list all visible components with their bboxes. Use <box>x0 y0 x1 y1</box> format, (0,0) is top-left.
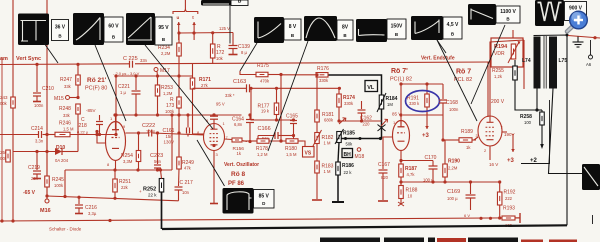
svg-text:1,2k: 1,2k <box>494 74 503 79</box>
svg-text:2,2M: 2,2M <box>161 51 171 56</box>
svg-text:100k: 100k <box>165 109 175 114</box>
svg-text:00k: 00k <box>0 101 8 106</box>
test point M17 <box>154 68 158 72</box>
pointer line oscillator scope <box>197 140 225 186</box>
wire R184 to node <box>381 109 383 139</box>
pointer line scope1 <box>44 43 58 63</box>
svg-text:330k: 330k <box>344 101 354 106</box>
highlight ellipse around R191 <box>406 91 440 112</box>
svg-text:R176: R176 <box>317 66 329 72</box>
svg-text:33k: 33k <box>63 113 71 118</box>
svg-text:C167: C167 <box>378 162 390 168</box>
plug VS <box>298 141 305 147</box>
svg-text:C210: C210 <box>42 86 54 92</box>
pointer line scope3 to tube B <box>145 45 213 129</box>
varistor R194 <box>491 38 523 67</box>
svg-text:100k: 100k <box>54 183 64 188</box>
svg-text:8V: 8V <box>342 24 349 30</box>
svg-text:10k: 10k <box>216 56 224 61</box>
wire bottom right rail corner <box>592 215 594 224</box>
scope photo 8V flyback <box>254 17 284 43</box>
pointer line endstufe <box>437 40 446 53</box>
svg-text:1,5 M: 1,5 M <box>286 152 297 157</box>
wire riser x172 <box>171 115 173 170</box>
resistor R234 <box>178 33 180 43</box>
resistor R245 <box>45 176 50 187</box>
node dot bottom rail x110 <box>108 219 111 222</box>
svg-text:C219: C219 <box>28 165 40 171</box>
wire tube A grid to left <box>97 132 106 144</box>
test point M16 <box>46 196 48 199</box>
scope label 900V <box>565 2 587 21</box>
transformer core <box>543 36 545 89</box>
resistor R176 <box>281 74 316 76</box>
wire black from R176 to R184 <box>329 75 382 95</box>
svg-text:M17: M17 <box>160 68 170 74</box>
wire left vertical line x13 <box>12 0 14 221</box>
wire tube C grid stub <box>383 137 393 169</box>
capacitor C210 <box>36 64 38 92</box>
resistor R156 <box>225 138 233 141</box>
svg-text:1,2 M: 1,2 M <box>257 152 268 157</box>
bottom scan bar <box>320 238 518 242</box>
capacitor C139 <box>232 33 234 46</box>
scope label 36V <box>52 20 69 41</box>
resistor R171 <box>192 64 194 78</box>
svg-text:R193: R193 <box>503 206 515 212</box>
svg-text:900 V: 900 V <box>569 5 583 11</box>
transformer winding L74 <box>534 37 541 89</box>
svg-text:PF 86: PF 86 <box>228 181 245 187</box>
wire L74 bottom lead <box>536 89 538 111</box>
svg-text:BH: BH <box>344 152 352 158</box>
resistor R175 <box>240 71 256 75</box>
resistor R187 <box>399 164 404 177</box>
resistor R253 <box>157 76 159 85</box>
svg-text:0A 204: 0A 204 <box>55 158 69 163</box>
magnifier zoom icon <box>567 11 587 31</box>
svg-text:36 V: 36 V <box>55 24 66 30</box>
u-t waveform inset with brace <box>184 0 186 10</box>
resistor R189 <box>442 115 444 140</box>
scope label 85V D <box>254 190 275 209</box>
svg-text:1,2M: 1,2M <box>163 91 173 96</box>
scope photo top cut <box>201 0 231 6</box>
resistor R174 <box>338 88 340 94</box>
svg-text:680k: 680k <box>324 118 334 123</box>
svg-text:Schalter - Diode: Schalter - Diode <box>49 227 82 232</box>
capacitor C167 <box>379 169 388 171</box>
svg-text:243: 243 <box>0 95 8 100</box>
svg-text:R190: R190 <box>448 159 460 165</box>
resistor R172 <box>212 33 214 44</box>
resistor R246 <box>55 132 70 137</box>
svg-text:Rö 7': Rö 7' <box>391 68 408 75</box>
scope photo 60V <box>73 13 104 45</box>
svg-text:85 V: 85 V <box>259 193 270 199</box>
svg-text:100: 100 <box>524 120 532 125</box>
wire x47 link <box>46 135 48 177</box>
wire far-left edge line <box>1 57 3 221</box>
pointer line scope 8V to R175 <box>240 43 257 71</box>
scope photo 4,5V <box>411 16 443 40</box>
wire tube B plate stub <box>212 113 215 116</box>
wire tube D plate to transformer <box>490 40 524 116</box>
wire tube C cathode <box>400 151 402 165</box>
potentiometer R184 <box>379 95 384 109</box>
wire node line y88 <box>193 87 247 89</box>
potentiometer R182 <box>316 122 318 133</box>
capacitor C168 <box>442 84 444 99</box>
svg-text:C163: C163 <box>233 79 246 85</box>
svg-text:R189: R189 <box>461 129 473 135</box>
svg-text:220: 220 <box>363 122 371 127</box>
svg-text:1 µ: 1 µ <box>120 90 126 95</box>
resistor R181 <box>316 75 318 110</box>
svg-text:R192: R192 <box>504 190 516 196</box>
pointer line scope 4,5V to tube D <box>437 40 477 121</box>
scope label top cut <box>231 0 248 6</box>
wire tube B cathode stub <box>213 151 215 204</box>
scope photo 900V <box>535 0 564 26</box>
svg-text:6 V: 6 V <box>464 213 470 218</box>
svg-text:PC(L) 82: PC(L) 82 <box>390 77 412 83</box>
scope label 1100V <box>496 6 520 23</box>
svg-text:100n: 100n <box>34 103 44 108</box>
svg-text:Rö 21': Rö 21' <box>87 77 107 84</box>
svg-text:47k: 47k <box>184 166 192 171</box>
wire riser x427 to +3 <box>426 112 428 129</box>
svg-text:M18: M18 <box>355 154 365 160</box>
svg-text:Rö 8: Rö 8 <box>231 171 245 178</box>
svg-text:Vert Sync: Vert Sync <box>16 56 41 62</box>
wire node line y182 right <box>401 181 500 183</box>
pointer line scope sine to C166 <box>268 41 308 151</box>
svg-text:33k: 33k <box>64 84 72 89</box>
svg-text:A6: A6 <box>586 62 592 67</box>
svg-text:+: + <box>139 189 142 194</box>
transformer winding L75 <box>549 37 557 89</box>
svg-text:R186: R186 <box>342 163 354 169</box>
resistor R192 <box>499 182 501 192</box>
svg-text:100n: 100n <box>146 129 156 134</box>
resistor R177 <box>276 88 278 103</box>
wire node line y134 left <box>0 134 38 136</box>
wire tube B grid stub left <box>193 133 204 135</box>
wire main top bus +125V rail <box>0 62 490 65</box>
svg-text:u: u <box>177 15 180 20</box>
svg-text:85 V: 85 V <box>392 112 401 117</box>
svg-text:1100 V: 1100 V <box>500 9 516 15</box>
wire node line y120 <box>251 88 294 120</box>
scope label 8V a <box>284 19 301 40</box>
svg-text:C168: C168 <box>446 100 458 106</box>
svg-text:L74: L74 <box>522 58 531 64</box>
svg-text:L75: L75 <box>559 58 568 64</box>
wire transformer top line <box>534 35 568 225</box>
svg-text:-65 V: -65 V <box>23 190 36 196</box>
svg-text:200 V: 200 V <box>491 99 505 105</box>
tube Ro21 triode <box>106 122 126 161</box>
resistor R251 <box>114 170 116 179</box>
scope photo 95V <box>126 13 155 45</box>
svg-text:95 V: 95 V <box>216 102 225 107</box>
scope photo 8V sine <box>304 16 337 41</box>
svg-text:8 V: 8 V <box>289 24 297 30</box>
wire L75 bottom lead <box>549 89 583 174</box>
svg-text:33k *: 33k * <box>225 93 235 98</box>
svg-text:C 217: C 217 <box>180 180 194 186</box>
wire R186 to terminal <box>337 175 339 201</box>
plug BH <box>342 149 353 158</box>
ground symbol top right <box>573 37 584 48</box>
svg-text:1,5 M: 1,5 M <box>63 127 74 132</box>
wire grid line tube A to tube B y133 <box>126 132 149 134</box>
tube Ro7prime triode <box>393 121 410 151</box>
wire black ground bus <box>162 225 567 229</box>
wire bus to 200V node <box>487 62 489 117</box>
svg-text:C166: C166 <box>258 126 271 132</box>
wiper arrow red R182 tap <box>339 118 346 124</box>
resistor R183 <box>316 144 318 162</box>
svg-text:M15: M15 <box>54 96 64 102</box>
capacitor C216 <box>78 197 80 204</box>
capacitor C162 <box>361 101 363 109</box>
svg-text:60 V: 60 V <box>108 24 119 30</box>
resistor R248 <box>76 104 81 114</box>
svg-text:R248: R248 <box>59 106 71 112</box>
svg-text:330k: 330k <box>319 78 329 83</box>
resistor R191 <box>426 84 428 94</box>
svg-text:2,2M: 2,2M <box>448 166 458 171</box>
svg-text:125 V: 125 V <box>219 26 230 31</box>
svg-text:R247: R247 <box>60 77 72 83</box>
svg-text:100n: 100n <box>449 107 459 112</box>
scope label 4,5V <box>443 17 462 39</box>
svg-text:C169: C169 <box>447 189 460 195</box>
svg-text:Rö 7: Rö 7 <box>456 69 471 76</box>
wire +3 arrow right <box>512 134 514 152</box>
wire tube D grid stub <box>474 137 478 140</box>
svg-text:VL: VL <box>367 85 375 91</box>
wire top right red line <box>568 36 600 39</box>
scope label 150V <box>387 19 406 39</box>
svg-text:VS: VS <box>305 151 312 157</box>
scope photo bottom right <box>582 164 600 190</box>
svg-text:C165: C165 <box>286 114 298 120</box>
wire left vertical line x47 <box>46 0 48 196</box>
svg-text:222: 222 <box>505 196 513 201</box>
wire 125V line y33 <box>179 32 233 35</box>
scope label 60V <box>104 17 123 42</box>
resistor R188 <box>400 182 402 186</box>
frame bottom right box <box>521 100 550 164</box>
svg-text:B: B <box>238 0 242 4</box>
svg-text:10: 10 <box>408 194 413 199</box>
svg-text:218: 218 <box>79 123 88 129</box>
svg-text:820: 820 <box>381 175 389 180</box>
svg-text:3,3M: 3,3M <box>123 159 133 164</box>
tube Ro8 pentode <box>204 124 225 151</box>
wire lower node line y170 <box>65 169 172 171</box>
wire plate loop tube C <box>401 83 443 85</box>
wire R252 to ground bus <box>161 192 163 229</box>
svg-text:6,8n: 6,8n <box>234 122 243 127</box>
pointer line scope2 to tube A <box>95 45 126 121</box>
svg-text:150V: 150V <box>391 23 403 29</box>
svg-text:1 M: 1 M <box>324 169 331 174</box>
wire tube A cathode stub <box>115 161 117 171</box>
svg-text:R185: R185 <box>343 131 355 137</box>
pointer line scope4 stub <box>229 6 231 44</box>
scope photo 150V <box>356 19 387 42</box>
svg-text:50k: 50k <box>346 142 354 147</box>
resistor R178 <box>243 140 257 142</box>
svg-text:am: am <box>0 56 8 62</box>
svg-text:0,22 µ: 0,22 µ <box>77 130 89 135</box>
svg-text:-85V: -85V <box>86 108 96 113</box>
svg-text:16 V: 16 V <box>489 162 498 167</box>
svg-text:8 µ: 8 µ <box>241 50 247 55</box>
svg-text:10n: 10n <box>182 190 190 195</box>
scope label 8V b <box>337 20 353 40</box>
pointer line scope 1100V to C168 <box>471 25 505 104</box>
resistor R173 <box>178 65 180 98</box>
scope photo 1100V <box>468 4 496 25</box>
potentiometer R185 <box>342 138 381 140</box>
svg-text:33n: 33n <box>140 58 148 63</box>
plug VL <box>365 81 378 92</box>
svg-text:470k: 470k <box>260 79 270 84</box>
svg-text:22 k: 22 k <box>148 193 157 198</box>
resistor R190 <box>444 140 446 164</box>
svg-text:4,7k: 4,7k <box>407 172 416 177</box>
svg-text:22 k: 22 k <box>344 170 353 175</box>
svg-text:R175: R175 <box>257 63 269 69</box>
resistor R247 <box>77 64 79 75</box>
svg-text:+3: +3 <box>507 158 515 164</box>
resistor R249 <box>178 115 180 157</box>
svg-text:95 V: 95 V <box>158 25 169 31</box>
svg-text:3,3n: 3,3n <box>35 139 44 144</box>
wire R255 to transformer bottom <box>515 80 537 110</box>
wire cathode line y196 <box>47 196 179 201</box>
svg-text:Vert. Oszillator: Vert. Oszillator <box>224 162 259 168</box>
tube Ro7 pentode <box>478 116 502 146</box>
scope photo 85V oscillator <box>223 188 254 214</box>
svg-text:19 k: 19 k <box>261 109 270 114</box>
resistor R254 <box>136 151 141 162</box>
wire bottom rail -65V line <box>0 218 520 221</box>
wire tube A plate stub <box>115 115 117 122</box>
svg-text:1M: 1M <box>387 102 393 107</box>
resistor R186 <box>338 143 339 163</box>
svg-text:+3: +3 <box>422 133 430 139</box>
svg-text:3,3µ: 3,3µ <box>88 211 97 216</box>
svg-text:100 µ: 100 µ <box>447 196 458 201</box>
svg-text:PC(F) 80: PC(F) 80 <box>85 86 107 92</box>
test point M18 <box>357 148 361 152</box>
svg-text:VDR: VDR <box>494 51 505 57</box>
svg-text:Vert. Endstufe: Vert. Endstufe <box>421 56 455 62</box>
svg-text:4,5 V: 4,5 V <box>447 22 459 28</box>
svg-text:27k: 27k <box>201 83 209 88</box>
antenna symbol A6 <box>590 40 592 55</box>
svg-text:M16: M16 <box>40 208 51 214</box>
svg-text:1 M: 1 M <box>324 141 331 146</box>
wire measurement line y76 <box>116 75 192 77</box>
svg-text:22k: 22k <box>121 185 129 190</box>
svg-text:330 k: 330 k <box>409 101 420 106</box>
wire riser x281 <box>280 75 282 142</box>
scope label 95V <box>155 17 172 45</box>
resistor R180 <box>269 140 286 142</box>
wire node line y115 <box>116 114 242 116</box>
scope photo 36V <box>18 14 49 46</box>
